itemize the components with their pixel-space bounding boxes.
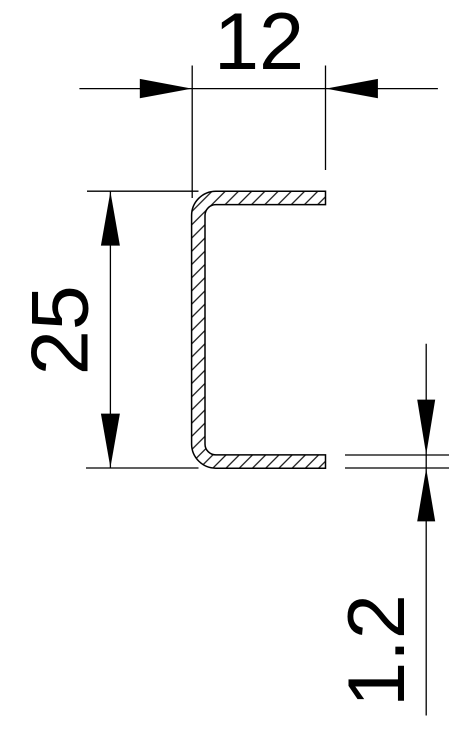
arrow 1.2 bottom: [417, 468, 435, 521]
arrow 1.2 top: [417, 400, 435, 455]
extension line 12 left: [191, 66, 193, 199]
extension line 1.2 bottom: [345, 467, 449, 469]
arrow 25 top: [101, 192, 120, 246]
extension line 12 right: [325, 66, 327, 171]
extension line 25 top: [87, 190, 199, 192]
arrow 25 bottom: [101, 414, 120, 468]
extension line 1.2 top: [345, 454, 449, 456]
arrow 12 left: [140, 79, 192, 98]
extension line 25 bottom: [86, 467, 199, 469]
channel profile cross-section (hatched): [192, 191, 326, 468]
arrow 12 right: [326, 79, 378, 98]
dim line 12: [79, 88, 438, 90]
dim line 25: [109, 191, 111, 468]
svg-text:25: 25: [16, 285, 106, 375]
svg-text:12: 12: [214, 0, 304, 87]
dim line 1.2: [425, 344, 427, 716]
svg-text:1.2: 1.2: [332, 594, 422, 707]
